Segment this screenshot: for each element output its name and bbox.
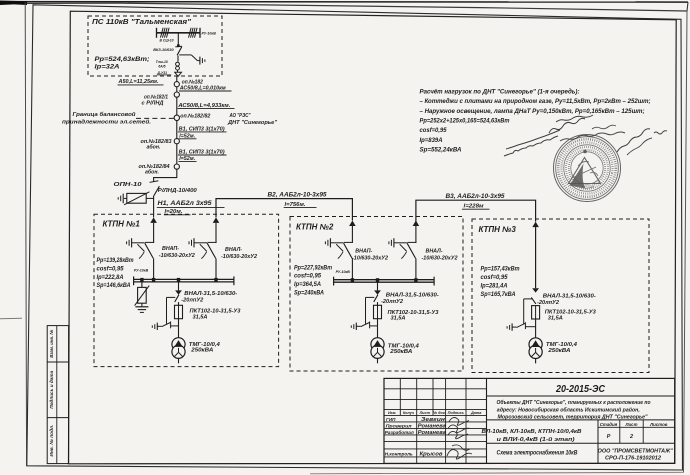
svg-text:Подпись и дата: Подпись и дата bbox=[49, 370, 54, 408]
svg-text:ГИП: ГИП bbox=[386, 417, 396, 422]
svg-text:ООО "ПРОМСВЕТМОНТАЖ": ООО "ПРОМСВЕТМОНТАЖ" bbox=[598, 448, 674, 454]
svg-text:cosf=0,95: cosf=0,95 bbox=[294, 273, 322, 280]
wire bbox=[215, 258, 217, 279]
node pole op.no182/1 bbox=[174, 92, 179, 97]
load-break switch VNAP-10/630 left bbox=[127, 238, 155, 258]
underline bbox=[157, 74, 172, 76]
load-break switch VNAL-10/630 KTPN2 right bbox=[389, 238, 417, 258]
svg-text:Листов: Листов bbox=[649, 422, 668, 427]
junction bbox=[414, 278, 417, 282]
load calculation text block bbox=[420, 87, 651, 153]
ground of OPN-10 bbox=[118, 194, 123, 204]
svg-text:и ВЛИ-0,4кВ (1-й этап): и ВЛИ-0,4кВ (1-й этап) bbox=[497, 436, 575, 443]
scan page top edge bbox=[0, 1, 688, 12]
switch VNAL-31,5 KTPN3 bbox=[531, 288, 539, 304]
organization cell bbox=[598, 448, 674, 461]
svg-text:Инв. № подл.: Инв. № подл. bbox=[49, 425, 54, 457]
svg-text:Стадия: Стадия bbox=[600, 422, 618, 427]
svg-text:Лист: Лист bbox=[419, 411, 431, 415]
cable entry arrow right feeder bbox=[213, 217, 220, 223]
svg-text:31,5А: 31,5А bbox=[548, 316, 563, 322]
boundary dash line bbox=[136, 117, 174, 119]
svg-text:Взам. инв. №: Взам. инв. № bbox=[49, 329, 54, 358]
svg-text:Разработал: Разработал bbox=[385, 429, 414, 436]
svg-text:ДНТ "Синегорье": ДНТ "Синегорье" bbox=[227, 120, 278, 126]
junction bbox=[351, 278, 354, 282]
scan page left edge bbox=[25, 3, 26, 467]
svg-text:-20лпУ2: -20лпУ2 bbox=[381, 299, 404, 305]
svg-text:Схема электроснабжения 10кВ: Схема электроснабжения 10кВ bbox=[497, 450, 579, 457]
svg-text:ПС 110кВ "Тальменская": ПС 110кВ "Тальменская" bbox=[92, 17, 191, 26]
svg-text:КТПН №1: КТПН №1 bbox=[103, 220, 141, 229]
surge arrester OPN-10 bbox=[124, 192, 154, 205]
svg-text:Колуч: Колуч bbox=[403, 411, 415, 415]
transformer TMG-10/0,4 KTPN3 bbox=[529, 338, 542, 364]
svg-text:КТПН №3: КТПН №3 bbox=[479, 225, 517, 234]
wire bbox=[176, 97, 178, 115]
signature scribbles bbox=[447, 418, 472, 460]
underline bbox=[178, 154, 227, 156]
svg-text:l=228м: l=228м bbox=[464, 204, 485, 210]
wire cable V2 bbox=[216, 199, 352, 221]
wire bbox=[415, 258, 417, 279]
svg-text:РУ-10кВ: РУ-10кВ bbox=[202, 31, 217, 35]
bus section coil symbol right bbox=[189, 28, 198, 38]
wire bbox=[415, 226, 417, 243]
svg-text:Р: Р bbox=[607, 434, 611, 440]
svg-text:Iр=32А: Iр=32А bbox=[95, 65, 120, 71]
svg-text:Рр=157,43кВт: Рр=157,43кВт bbox=[481, 266, 520, 273]
svg-text:Рр=139,28кВт: Рр=139,28кВт bbox=[97, 257, 134, 264]
node pole op.no182/82 boundary point bbox=[174, 115, 179, 120]
cable entry arrow left feeder bbox=[150, 217, 157, 223]
title block header row labels bbox=[388, 411, 481, 415]
svg-text:оп.№182: оп.№182 bbox=[182, 79, 203, 85]
svg-text:принадлежности эл.сетей.: принадлежности эл.сетей. bbox=[62, 118, 152, 125]
svg-text:ВНАП-: ВНАП- bbox=[162, 246, 179, 252]
underline bbox=[164, 214, 191, 216]
svg-text:Расчёт нагрузок по ДНТ "Синего: Расчёт нагрузок по ДНТ "Синегорье" (1-я … bbox=[420, 87, 580, 95]
svg-text:А50,L=11,25км.: А50,L=11,25км. bbox=[118, 79, 159, 85]
svg-text:-20лпУ2: -20лпУ2 bbox=[181, 297, 204, 303]
svg-text:КТПН №2: КТПН №2 bbox=[296, 222, 334, 231]
substation load text Pp and Ip bbox=[95, 57, 150, 70]
svg-text:cosf=0,95: cosf=0,95 bbox=[420, 127, 447, 134]
switch VKZ-10/630 blade bbox=[175, 46, 182, 55]
title block role rows bbox=[385, 417, 446, 458]
svg-text:– Наружное освещение, лампа ДН: – Наружное освещение, лампа ДНаТ Ру=0,15… bbox=[420, 108, 645, 115]
svg-text:В1, СИП3 3(1х70): В1, СИП3 3(1х70) bbox=[179, 149, 225, 155]
svg-text:Д-У31: Д-У31 bbox=[156, 71, 167, 75]
junction node bbox=[177, 44, 180, 47]
svg-text:250кВА: 250кВА bbox=[190, 348, 213, 354]
wire bbox=[535, 227, 537, 288]
svg-text:ВНАЛ-31,5-10/630-: ВНАЛ-31,5-10/630- bbox=[386, 293, 439, 299]
svg-text:ВНАЛ-31,5-10/630-: ВНАЛ-31,5-10/630- bbox=[184, 291, 237, 297]
svg-text:Рр=524,63кВт;: Рр=524,63кВт; bbox=[95, 57, 150, 63]
underline bbox=[178, 138, 196, 140]
svg-text:Н.контроль: Н.контроль bbox=[385, 451, 413, 457]
wire bbox=[153, 258, 155, 279]
svg-text:адресу: Новосибирская область: адресу: Новосибирская область Искитимски… bbox=[497, 406, 640, 413]
junction bbox=[214, 278, 217, 282]
scan fold mark left margin bbox=[0, 317, 22, 320]
earthing switch KTPN3 bbox=[507, 299, 535, 331]
svg-text:Н1, ААБ2л 3х95: Н1, ААБ2л 3х95 bbox=[158, 201, 213, 207]
fuse PKT102 KTPN3 bbox=[532, 306, 540, 338]
wire jog to R/LND bbox=[154, 169, 177, 181]
document number cell bbox=[487, 383, 675, 396]
load text KTPN3 bbox=[481, 266, 520, 298]
junction bbox=[177, 278, 180, 282]
svg-text:Sр=552,24кВА: Sр=552,24кВА bbox=[420, 147, 462, 154]
underline bbox=[178, 131, 227, 133]
KTPN no1 dashed box bbox=[94, 214, 279, 366]
svg-text:Дата: Дата bbox=[470, 411, 481, 415]
switch VNAL-31,5 transformer feeder KTPN1 bbox=[175, 282, 182, 305]
svg-text:Романева: Романева bbox=[418, 430, 446, 436]
wire below CT bbox=[177, 70, 179, 72]
cable head triangle down bbox=[175, 72, 182, 76]
svg-text:ОПН-10: ОПН-10 bbox=[114, 182, 143, 188]
ground of arrester bbox=[135, 307, 148, 313]
surge arrester in KTPN1 bbox=[135, 286, 150, 307]
svg-text:-10/630-20хУ2: -10/630-20хУ2 bbox=[221, 254, 258, 260]
svg-text:РУ-10кВ: РУ-10кВ bbox=[336, 270, 351, 274]
svg-text:20-2015-ЭС: 20-2015-ЭС bbox=[555, 383, 605, 395]
node pole op.no182/83 bbox=[174, 139, 179, 144]
bus section coil symbol left bbox=[161, 28, 170, 38]
wire bbox=[176, 121, 178, 139]
underline bbox=[179, 90, 232, 92]
svg-text:Зевгин: Зевгин bbox=[421, 417, 445, 423]
wire bbox=[176, 144, 178, 164]
svg-text:Рр=227,92кВт: Рр=227,92кВт bbox=[294, 264, 332, 271]
earthing switch of transformer feeder KTPN1 bbox=[152, 297, 178, 330]
underline bbox=[118, 84, 164, 86]
KTPN no2 dashed box bbox=[290, 217, 463, 372]
svg-text:В2, ААБ2л-10-3х95: В2, ААБ2л-10-3х95 bbox=[268, 192, 328, 199]
svg-text:В СШ-10: В СШ-10 bbox=[160, 39, 174, 43]
handwriting signature right bbox=[617, 129, 667, 155]
svg-text:250кВА: 250кВА bbox=[547, 348, 570, 354]
wire bbox=[351, 226, 353, 243]
handwriting note v zam bbox=[549, 115, 593, 133]
node pole op.no182 bbox=[174, 82, 179, 87]
svg-text:ВНАЛ-: ВНАЛ- bbox=[426, 248, 443, 254]
load-break switch VNAP-10/630 KTPN2 left bbox=[325, 238, 353, 258]
KTPN no3 dashed box bbox=[472, 219, 649, 373]
svg-text:Граница балансовой: Граница балансовой bbox=[73, 111, 137, 118]
transformer TMG-10/0,4 KTPN1 bbox=[172, 338, 185, 364]
svg-text:Лист: Лист bbox=[624, 422, 637, 427]
svg-text:cosf=0,95: cosf=0,95 bbox=[97, 265, 125, 272]
svg-text:Sр=240кВА: Sр=240кВА bbox=[294, 290, 324, 297]
svg-text:31,5А: 31,5А bbox=[391, 316, 406, 322]
svg-text:-10/630-20хУ2: -10/630-20хУ2 bbox=[352, 256, 389, 262]
wire below VKZ bbox=[177, 56, 179, 62]
current transformer Tlsh-10 6A/5 bbox=[176, 62, 180, 70]
svg-text:250кВА: 250кВА bbox=[389, 349, 412, 355]
svg-text:абон.: абон. bbox=[147, 144, 161, 151]
cable entry arrow right feeder KTPN2 bbox=[413, 221, 420, 227]
svg-text:Sр=146,6кВА: Sр=146,6кВА bbox=[97, 282, 131, 289]
svg-text:31,5А: 31,5А bbox=[193, 315, 208, 321]
svg-text:Тлш-10: Тлш-10 bbox=[156, 60, 168, 64]
busbar RU-10kV KTPN1 bbox=[134, 276, 234, 285]
left margin stamp column table bbox=[47, 326, 68, 464]
scan page bottom edge bbox=[310, 472, 684, 474]
junction bbox=[152, 278, 155, 282]
busbar RU-10kV KTPN2 bbox=[334, 277, 435, 286]
title block outline bbox=[384, 378, 675, 463]
handwriting note left bbox=[504, 130, 560, 156]
wire from substation bbox=[176, 76, 178, 81]
underline bbox=[157, 206, 225, 208]
svg-text:Объекты ДНТ "Синегорье", плани: Объекты ДНТ "Синегорье", планируемых к р… bbox=[497, 399, 652, 406]
svg-text:ВНАЛ-31,5-10/630-: ВНАЛ-31,5-10/630- bbox=[543, 293, 596, 299]
svg-text:Романева: Романева bbox=[418, 423, 446, 429]
wire bbox=[153, 223, 155, 243]
load text KTPN2 bbox=[294, 264, 332, 296]
svg-text:– Коттеджи с плитами на природ: – Коттеджи с плитами на природном газе, … bbox=[420, 97, 651, 105]
svg-text:ВНАЛ-: ВНАЛ- bbox=[225, 247, 242, 253]
svg-text:ВЛ-10кВ, КЛ-10кВ, КТПН-10/0,4к: ВЛ-10кВ, КЛ-10кВ, КТПН-10/0,4кВ bbox=[482, 429, 582, 435]
svg-text:оп.№182/1: оп.№182/1 bbox=[144, 94, 168, 100]
disconnect R/LND-10/400 blade bbox=[154, 186, 160, 195]
underline bbox=[462, 208, 490, 210]
svg-text:l=756м.: l=756м. bbox=[285, 202, 306, 208]
scan page right edge bbox=[684, 11, 688, 473]
wire cable V3 bbox=[416, 200, 536, 222]
svg-text:Iр=222,8А: Iр=222,8А bbox=[97, 274, 124, 281]
sheet name cell bbox=[497, 450, 579, 457]
cable entry arrow feeder KTPN3 bbox=[532, 222, 539, 228]
svg-text:-10/630-20хУ2: -10/630-20хУ2 bbox=[422, 256, 459, 262]
fuse PKT102 cartridge bbox=[175, 305, 183, 338]
svg-text:СРО-П-176-19102012: СРО-П-176-19102012 bbox=[605, 455, 661, 461]
underline bbox=[284, 206, 317, 208]
svg-text:с Р/ЛНД: с Р/ЛНД bbox=[142, 101, 164, 107]
substation PS 110kV Talmenskaya dashed box bbox=[88, 16, 222, 76]
stage list cells bbox=[487, 420, 675, 464]
junction bbox=[376, 278, 379, 282]
project name cell bbox=[482, 420, 599, 443]
svg-text:Крысов: Крысов bbox=[420, 451, 443, 457]
svg-text:2: 2 bbox=[629, 434, 633, 440]
wire bus drop bbox=[177, 33, 179, 46]
load text KTPN1 bbox=[97, 257, 134, 289]
svg-text:АО "РЭС": АО "РЭС" bbox=[229, 113, 251, 119]
svg-text:оп.№182/82: оп.№182/82 bbox=[180, 114, 210, 120]
svg-text:6А/5: 6А/5 bbox=[158, 65, 165, 69]
svg-text:Проверил: Проверил bbox=[386, 423, 412, 429]
wire bbox=[351, 258, 353, 279]
load-break switch VNAL-10/630 right bbox=[189, 238, 217, 258]
wire below R/LND bbox=[153, 196, 155, 218]
object description cell bbox=[497, 399, 652, 420]
junction bbox=[140, 278, 143, 282]
svg-text:Р/ЛНД-10/400: Р/ЛНД-10/400 bbox=[158, 188, 198, 194]
disconnect R/LND-10/400 tick bbox=[150, 181, 159, 183]
svg-text:РУ-10кВ: РУ-10кВ bbox=[134, 268, 149, 272]
cable entry arrow left feeder KTPN2 bbox=[349, 221, 356, 227]
underline bbox=[178, 160, 196, 162]
busbar RU-10kV of substation bbox=[157, 28, 201, 38]
fuse PKT102 cartridge bbox=[374, 305, 382, 338]
node pole op.no182/84 bbox=[174, 164, 179, 169]
svg-text:-10/630-20хУ2: -10/630-20хУ2 bbox=[159, 253, 196, 259]
svg-text:ВНАП-: ВНАП- bbox=[355, 248, 372, 254]
wire to arrester bbox=[141, 282, 143, 287]
title block revision grid bbox=[384, 378, 487, 463]
svg-text:В3, ААБ2л-10-3х95: В3, ААБ2л-10-3х95 bbox=[446, 193, 506, 200]
handwriting across stamp top bbox=[560, 125, 625, 141]
transformer TMG-10/0,4 KTPN2 bbox=[371, 338, 384, 364]
svg-text:cosf=0,95: cosf=0,95 bbox=[481, 274, 509, 281]
svg-text:АС50/8,L=4,933км.: АС50/8,L=4,933км. bbox=[177, 103, 231, 109]
svg-text:Подпись: Подпись bbox=[448, 411, 465, 415]
round seal stamp bbox=[554, 135, 621, 202]
svg-text:В1, СИП3 3(1х70): В1, СИП3 3(1х70) bbox=[179, 126, 225, 132]
svg-text:Sр=165,7кВА: Sр=165,7кВА bbox=[481, 291, 516, 298]
wire bbox=[176, 87, 178, 92]
wire bbox=[215, 223, 217, 243]
svg-text:Рр=252х2+125х0,165=524,63кВт: Рр=252х2+125х0,165=524,63кВт bbox=[420, 118, 510, 125]
switch VNAL-31,5 transformer feeder KTPN2 bbox=[374, 282, 381, 305]
earthing switch of transformer feeder KTPN2 bbox=[351, 297, 377, 330]
svg-text:Iр=364,5А: Iр=364,5А bbox=[294, 281, 321, 288]
svg-text:№ док.: № док. bbox=[433, 411, 446, 415]
svg-text:ВКЗ-10/630: ВКЗ-10/630 bbox=[153, 48, 174, 52]
underline bbox=[178, 108, 235, 110]
svg-text:Изм.: Изм. bbox=[388, 411, 396, 415]
svg-text:Iр=839А: Iр=839А bbox=[420, 137, 443, 144]
svg-text:-20лпУ2: -20лпУ2 bbox=[537, 300, 560, 306]
svg-text:абон.: абон. bbox=[145, 168, 159, 175]
svg-text:Iр=281,4А: Iр=281,4А bbox=[481, 283, 508, 290]
earthing branch of VKZ bbox=[179, 55, 205, 65]
